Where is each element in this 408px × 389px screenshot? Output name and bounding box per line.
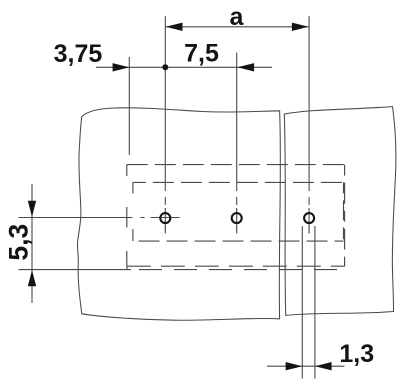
arrow pointing right at x=129.3 (3,75)	[113, 63, 130, 71]
dimension a: right arrow	[292, 23, 309, 31]
hole 3 vertical axis	[308, 16, 310, 233]
1,3 left arrow (points right)	[286, 362, 303, 370]
dimension 1,3: line	[267, 365, 345, 367]
dimension 1,3: left extension line from hole 3	[301, 226, 303, 379]
hole 2 vertical axis	[236, 53, 238, 234]
5,3 top arrow (down)	[28, 201, 36, 217]
svg-text:1,3: 1,3	[339, 340, 374, 368]
svg-text:3,75: 3,75	[54, 40, 103, 68]
5,3 lower extension line	[19, 269, 132, 271]
svg-text:7,5: 7,5	[184, 40, 219, 68]
left stub of second outline	[126, 266, 128, 270]
PCB board torn outline (right piece)	[284, 107, 396, 316]
svg-text:5,3: 5,3	[3, 224, 33, 261]
extension line for 3,75	[128, 57, 130, 155]
arrow pointing left at x=237.4 (7,5)	[237, 63, 254, 71]
horizontal center line through hole 1 (dash-dot)	[19, 217, 180, 219]
hole 1 vertical axis	[164, 16, 166, 233]
dimension 7,5 / 3,75 line	[96, 66, 272, 68]
junction dot on hole1 axis	[162, 64, 168, 70]
PCB board torn outline (left piece)	[77, 108, 280, 320]
hole 1	[160, 213, 170, 223]
hole 2	[232, 213, 242, 223]
dimension 5,3: vertical line	[31, 184, 33, 303]
svg-text:a: a	[230, 3, 245, 31]
hole 3	[304, 213, 314, 223]
dimension a: line	[165, 26, 309, 28]
1,3 right arrow (points left)	[315, 362, 332, 370]
second dashed bottom outline line	[134, 269, 345, 271]
dimension 1,3: right extension line from hole 3	[314, 226, 316, 379]
outer dashed housing rectangle	[127, 165, 345, 267]
dimension a: left arrow	[166, 23, 183, 31]
5,3 bottom arrow (up)	[28, 270, 36, 286]
inner dashed housing rectangle	[133, 182, 344, 241]
